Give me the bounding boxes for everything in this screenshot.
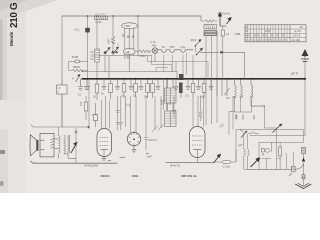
choke Dr1 [69, 55, 88, 71]
svg-text:μF: μF [289, 173, 293, 177]
resistor R3 zigzag [135, 50, 152, 58]
resistor R14 [279, 147, 282, 156]
resistor R11 box [203, 79, 205, 84]
electrolytic C22 [302, 147, 306, 154]
svg-text:26,3: 26,3 [191, 38, 197, 42]
svg-text:Dr05: Dr05 [72, 55, 79, 59]
wire switch row [99, 55, 152, 57]
wire vertical x97 coil drop [96, 18, 98, 79]
svg-text:210 G: 210 G [9, 2, 20, 28]
capacitor C7 [139, 79, 144, 90]
scan edge shading top-left [0, 0, 58, 20]
resistor R12 box [85, 96, 87, 102]
svg-text:μ47: μ47 [238, 143, 243, 147]
capacitor block C11 dark [179, 74, 184, 80]
resistor R6 box [123, 79, 125, 84]
lamp LA1 [152, 48, 158, 54]
svg-text:F·01: F·01 [96, 20, 103, 24]
bottom right network [236, 130, 304, 172]
capacitor C4 [102, 79, 107, 90]
svg-text:TS01: TS01 [124, 24, 131, 28]
capacitor C3 [78, 79, 83, 90]
capacitor C1 [74, 28, 90, 33]
svg-text:5Ω: 5Ω [240, 95, 243, 99]
capacitor C12 [186, 79, 191, 90]
mid vertical wires to tubes [84, 79, 234, 150]
wire curve to rail [294, 163, 304, 170]
capacitor diag marks [219, 124, 224, 128]
wire rail x276 [275, 128, 277, 142]
arrow up on rail [303, 164, 305, 175]
svg-text:µV 9: µV 9 [291, 72, 298, 76]
svg-text:U58: U58 [235, 32, 241, 36]
wire drop x222 [221, 79, 223, 96]
svg-text:0,1: 0,1 [121, 94, 125, 98]
wire y142 to rail [276, 141, 303, 143]
edge fold mark [0, 150, 5, 154]
resistor R10 box [192, 79, 194, 84]
label VTL [150, 40, 157, 48]
svg-text:TPh: TPh [170, 45, 176, 49]
lamp small circle [266, 149, 270, 153]
edge fold mark 2 [0, 181, 4, 186]
wire transformer legs below bus [206, 79, 217, 125]
wire x125 [125, 96, 127, 127]
capacitor C6 [129, 79, 134, 90]
mains plug arrows [218, 13, 231, 27]
svg-text:17R2: 17R2 [139, 54, 146, 58]
wire right rail down [250, 80, 305, 136]
svg-text:40: 40 [90, 50, 93, 54]
svg-text:1,4V·8: 1,4V·8 [293, 34, 301, 38]
resistor R4 box [96, 79, 98, 84]
main chassis bus [82, 78, 306, 80]
wire x241 drop [240, 99, 242, 112]
svg-text:0,1: 0,1 [78, 93, 82, 97]
wire rail2 [82, 72, 178, 79]
svg-text:4/8: 4/8 [152, 44, 156, 48]
wire socket legs [164, 53, 187, 79]
wire tube3 leads [193, 96, 204, 128]
svg-text:4μF: 4μF [160, 99, 165, 103]
wire top loop A [236, 130, 304, 163]
capacitor C16 [172, 96, 176, 118]
wire loop rect [259, 142, 276, 169]
svg-text:47/42Ω/5W: 47/42Ω/5W [84, 164, 98, 168]
capacitor C21 box [291, 166, 295, 172]
power supply right block [235, 99, 283, 142]
svg-text:50kΩ: 50kΩ [73, 65, 81, 69]
svg-text:100: 100 [79, 101, 83, 106]
wire vertical x113 [112, 16, 114, 56]
tube V1 top oval [121, 23, 138, 56]
wire x233 [232, 96, 234, 130]
wire coil to rail [265, 105, 277, 128]
voltage table [245, 25, 306, 42]
bandswitch nested wires [148, 56, 209, 79]
coil L5 loops [251, 79, 253, 106]
svg-text:4(71V)≈0: 4(71V)≈0 [218, 12, 231, 16]
tube V4 output pentode pill [190, 127, 206, 163]
svg-text:(1,2V): (1,2V) [294, 29, 301, 33]
svg-text:4b: 4b [126, 34, 130, 38]
capacitor C2 below bus [84, 79, 90, 90]
resistor R16 zigzag [199, 96, 202, 121]
connector loop on wire [75, 131, 77, 133]
fuse F1 [221, 26, 229, 79]
below-bus component row [78, 74, 253, 127]
svg-text:μ: μ [72, 76, 74, 80]
earth ground [295, 183, 311, 188]
IF transformer winding lower [168, 103, 174, 111]
wire pin a with loops [244, 132, 245, 169]
wire inner loop [262, 142, 272, 169]
capacitor C8 [156, 79, 161, 90]
title Mende 210 G [9, 2, 20, 46]
capacitor C10 [174, 79, 179, 90]
wire x286 tick [285, 153, 286, 169]
output transformer T2 [54, 135, 76, 158]
junction dots on top bus [87, 15, 139, 17]
svg-text:~0,1: ~0,1 [74, 28, 80, 32]
svg-text:1/8Ω: 1/8Ω [132, 174, 139, 178]
oval cartouche GB [124, 49, 136, 60]
capacitor C18 under tube V2 [102, 157, 111, 161]
tube V2 output pill [97, 129, 112, 157]
capacitor C13 [196, 79, 201, 90]
tube V3 rectifier circle [127, 131, 140, 147]
pot arrow P5 bold [251, 158, 260, 167]
bottom wire [245, 168, 295, 170]
squiggle mark s [278, 157, 281, 160]
svg-text:3Ω: 3Ω [226, 96, 229, 100]
svg-text:Ta: Ta [240, 129, 243, 133]
svg-text:0,5: 0,5 [185, 94, 189, 98]
svg-text:7000: 7000 [235, 114, 239, 120]
svg-text:GB: GB [126, 50, 130, 54]
resistor R2 zigzag horizontal [69, 65, 88, 72]
capacitor C23 between wires [126, 104, 130, 107]
switch S1 contacts [103, 42, 119, 55]
svg-text:C·Gw: C·Gw [223, 165, 231, 169]
speaker frame magnet [40, 133, 54, 157]
potentiometer arrow P1 [72, 75, 80, 83]
switch arrow S3 [241, 132, 247, 138]
wire left rail [61, 16, 63, 127]
svg-text:Θ=4/7Ω: Θ=4/7Ω [170, 164, 180, 168]
svg-text:60: 60 [90, 57, 93, 61]
svg-text:Mende: Mende [9, 31, 14, 46]
junction dots on bus [87, 78, 307, 80]
coil L1 on top bus [95, 13, 108, 24]
svg-text:MB SW 2a: MB SW 2a [182, 174, 197, 178]
pot arrow P3 [214, 154, 221, 163]
wire antenna drop [304, 56, 306, 80]
wire x229 [229, 112, 235, 136]
labels mid [79, 96, 238, 142]
squiggle mark [120, 157, 125, 158]
svg-text:72Ω/7Ω: 72Ω/7Ω [148, 138, 157, 142]
wire vertical x138 [137, 16, 139, 56]
pentode arrow P2 [71, 128, 77, 163]
power transformer T1 [201, 16, 217, 79]
wire bottom right heater [166, 161, 214, 163]
svg-text:111: 111 [90, 54, 95, 58]
wire hop link [248, 132, 259, 134]
right rail with parts [302, 147, 306, 185]
IF can Lfr [57, 79, 68, 127]
switch S2b contact [196, 48, 203, 55]
svg-text:4Ω: 4Ω [233, 95, 236, 99]
capacitor C14 [209, 79, 214, 90]
speaker cone [30, 135, 38, 156]
svg-text:7000: 7000 [241, 114, 245, 120]
wire tube2 leads [131, 96, 137, 133]
coil L3 loops [235, 79, 237, 99]
pot arrow P4 [273, 125, 282, 133]
cross marks [262, 154, 264, 156]
svg-text:2a: 2a [121, 33, 125, 37]
svg-text:TA: TA [162, 45, 166, 49]
resistor R1 vertical zigzag [111, 37, 115, 45]
wire x234 drop [234, 99, 236, 112]
wire drop x217 [216, 79, 218, 96]
wire pin b with loops [248, 134, 249, 169]
svg-text:≠1: ≠1 [226, 32, 230, 36]
wire bottom left heater [31, 161, 117, 163]
resistor R15 box [302, 175, 305, 179]
wire drops from switch row [105, 53, 155, 78]
svg-text:4Ω: 4Ω [300, 25, 303, 29]
switch S2 mains [191, 38, 202, 52]
svg-text:1TR2: 1TR2 [124, 56, 131, 60]
resistor R17 box [93, 103, 97, 127]
svg-text:LSp: LSp [180, 45, 185, 49]
socket rail with U dips [158, 50, 193, 53]
wire drops x163 x166 [164, 79, 167, 110]
tall coil L2 [90, 49, 99, 62]
resistor R8 box [147, 79, 149, 84]
svg-text:↗μF: ↗μF [146, 155, 152, 159]
antenna A [301, 49, 309, 62]
capacitor C24 marks [116, 111, 120, 113]
wire y126 link [31, 125, 88, 127]
pilot box [261, 148, 264, 152]
filter coil L6 loops horizontal [252, 105, 265, 107]
resistor R5 box [110, 79, 112, 84]
resistor R9 box [152, 79, 154, 84]
svg-text:A: A [224, 93, 226, 97]
wire x146 cap [144, 96, 148, 150]
resistor R7 box [135, 79, 137, 84]
junction blob [88, 126, 90, 128]
wire vertical x86 [87, 16, 89, 79]
wire tube1 leads [89, 79, 110, 129]
capacitor C5 [115, 79, 120, 90]
component CGw [214, 150, 236, 169]
capacitor C19 under tube V3 [132, 146, 149, 154]
svg-text:100: 100 [107, 39, 111, 44]
wire y112 link [235, 111, 252, 113]
svg-text:RE904: RE904 [101, 174, 111, 178]
wire speaker top [59, 127, 90, 135]
svg-text:220: 220 [252, 115, 256, 120]
row labels [78, 92, 226, 103]
svg-text:1Ω: 1Ω [250, 95, 253, 99]
wire mains run with arrow [193, 51, 244, 79]
coil L4 loops [241, 79, 243, 99]
wire x251 drop [251, 99, 253, 112]
svg-text:4A,15Ω: 4A,15Ω [292, 38, 301, 42]
pot arrows right of tube2 [152, 96, 164, 132]
wire top bus [62, 15, 201, 17]
IF transformer winding upper [168, 79, 174, 88]
capacitor C15 pair [116, 96, 124, 130]
switch arrow A1 [225, 79, 230, 96]
